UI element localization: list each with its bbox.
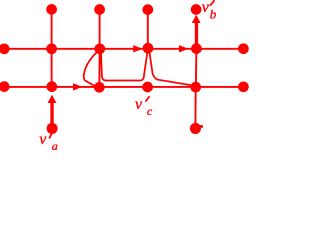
svg-text:v: v [39,131,47,148]
node row2 col0 [0,43,10,54]
stub right of row4 col4 dot [200,125,203,128]
node row3 col4 [190,82,201,93]
wire col3 vertical top [147,9,149,48]
node row2 col2 [94,43,105,54]
arrowhead row2 mid [133,45,142,52]
node row3 col3 [142,82,153,93]
wire detour right diagonal [149,51,195,86]
arrow vb head [192,15,201,23]
node row1 col1 [46,4,57,15]
label v'_c [135,96,153,118]
arrow va head [48,95,57,103]
arrow va shaft [50,102,53,126]
node row2 col3 [143,43,154,54]
label v'_a [39,131,58,153]
node row3 col5 [238,81,249,92]
node row4 col1 [47,123,58,134]
arrow vb shaft [195,22,198,45]
node row1 col3 [142,4,153,15]
node row3 col0 [0,81,10,92]
node row2 col1 [46,43,57,54]
svg-text:a: a [52,139,58,150]
node row2 col5 [238,43,249,54]
svg-text:b: b [210,7,217,22]
wire col4 vertical bottom [194,87,196,128]
wire col4 vertical mid [195,49,198,87]
wire detour sliver [101,50,148,80]
node row1 col2 [94,4,105,15]
node row4 col4 [190,123,201,134]
node row3 col2 [94,82,105,93]
wire col2 vertical top [99,9,101,48]
wire detour left bulge [84,51,99,87]
arrowhead row3 left [73,83,82,90]
node row3 col1 [46,81,57,92]
label v'_b [202,0,217,22]
svg-text:c: c [147,104,153,118]
wire col2 vertical mid [98,49,100,88]
node row2 col4 [191,43,202,54]
wire row3 horizontal [0,86,243,88]
svg-text:v: v [135,96,143,113]
wire col1 vertical [51,9,53,87]
svg-text:v: v [202,0,210,16]
wire row2 horizontal [0,48,243,50]
arrowhead row2 right [179,45,188,52]
node row1 col4 [191,4,202,15]
